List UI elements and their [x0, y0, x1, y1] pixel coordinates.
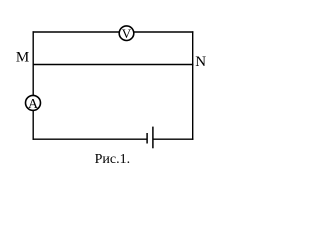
wire: middle wire M to N — [33, 64, 194, 66]
wire: bottom left segment to battery — [33, 138, 148, 140]
caption: Рис.1. — [95, 152, 131, 167]
svg-text:N: N — [195, 54, 206, 70]
svg-text:V: V — [122, 26, 132, 41]
svg-text:M: M — [16, 49, 29, 65]
battery (cell): long plate — [152, 127, 154, 149]
voltmeter V — [119, 26, 134, 41]
svg-text:A: A — [28, 97, 39, 112]
wire: left vertical (M down through ammeter to bottom) — [32, 31, 34, 140]
svg-text:Рис.1.: Рис.1. — [95, 152, 131, 167]
wire: bottom right segment from battery — [153, 138, 194, 140]
battery (cell): short plate — [146, 133, 148, 144]
wire: top branch from M up and across to N (through voltmeter) — [33, 31, 194, 33]
wire: right vertical (N down to bottom) — [192, 31, 194, 140]
node N — [195, 54, 206, 70]
node M — [16, 49, 29, 65]
ammeter A — [26, 95, 41, 112]
